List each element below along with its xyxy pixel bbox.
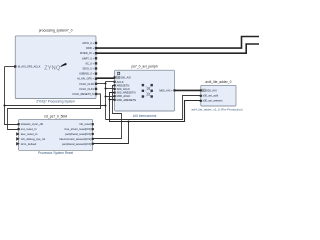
svg-text:ZYNQ: ZYNQ [44, 66, 60, 72]
block axi4_lite_adder_0 [201, 85, 236, 106]
svg-text:S00_ARESETN: S00_ARESETN [117, 91, 136, 95]
svg-text:bus_struct_reset[0:0]: bus_struct_reset[0:0] [65, 127, 91, 131]
wire FCLK_RESET0_N to ext_reset_in [8, 94, 101, 130]
wire peripheral_aresetn [93, 93, 201, 144]
svg-text:peripheral_reset[0:0]: peripheral_reset[0:0] [65, 132, 91, 136]
svg-text:S00_AXI: S00_AXI [206, 88, 217, 92]
ZYNQ logo [44, 63, 66, 72]
svg-text:axi4_lite_adder_v1_0 (Pre-Prod: axi4_lite_adder_v1_0 (Pre-Production) [191, 107, 242, 111]
svg-text:ext_reset_in: ext_reset_in [21, 127, 37, 131]
svg-text:ZYNQ7 Processing System: ZYNQ7 Processing System [36, 99, 75, 103]
svg-text:ACLK: ACLK [117, 80, 124, 84]
title rst_ps7_0_50M [44, 115, 67, 119]
svg-text:s00_axi_aclk: s00_axi_aclk [203, 94, 219, 98]
svg-text:M00_ACLK: M00_ACLK [117, 94, 131, 98]
label Processor System Reset [38, 151, 73, 155]
svg-text:axi4_lite_adder_0: axi4_lite_adder_0 [205, 80, 231, 84]
svg-text:peripheral_aresetn[0:0]: peripheral_aresetn[0:0] [62, 142, 91, 146]
svg-text:IIC_0 +: IIC_0 + [86, 61, 95, 65]
rst right pin labels [59, 122, 91, 146]
svg-text:S00_AXI: S00_AXI [120, 75, 131, 79]
svg-text:USBIND_0 +: USBIND_0 + [79, 72, 94, 76]
wire interconnect_aresetn [93, 86, 122, 139]
label axi4_lite_adder_v1_0 (Pre-Production) [191, 107, 242, 111]
pin M00_AXI [159, 88, 175, 92]
block rst_ps7_0_50M (Processor System Reset) [19, 119, 93, 150]
svg-text:slowest_sync_clk: slowest_sync_clk [21, 122, 44, 126]
title processing_system7_0 [39, 29, 73, 33]
label ZYNQ7 Processing System [36, 99, 75, 103]
svg-text:GPIO_0 +: GPIO_0 + [82, 41, 94, 45]
svg-text:M00_ARESETN: M00_ARESETN [117, 98, 136, 102]
title axi4_lite_adder_0 [205, 80, 231, 84]
wire FIXED_IO external [96, 44, 259, 53]
svg-text:s00_axi_aresetn: s00_axi_aresetn [203, 99, 223, 103]
adder left pin stubs [200, 89, 202, 102]
svg-text:FCLK_CLK1: FCLK_CLK1 [79, 87, 94, 91]
interconnect left pin stubs [114, 76, 116, 101]
svg-text:FIXED_IO +: FIXED_IO + [80, 51, 95, 55]
svg-text:SDIO_0 +: SDIO_0 + [83, 67, 95, 71]
svg-text:Processor System Reset: Processor System Reset [38, 151, 73, 155]
junction dots aresetn net [109, 99, 130, 123]
svg-text:processing_system7_0: processing_system7_0 [39, 29, 73, 33]
expander box [117, 72, 120, 75]
svg-text:rst_ps7_0_50M: rst_ps7_0_50M [44, 115, 67, 119]
svg-text:interconnect_aresetn[0:0]: interconnect_aresetn[0:0] [59, 137, 91, 141]
svg-text:ps7_0_axi_periph: ps7_0_axi_periph [132, 65, 158, 69]
svg-text:aux_reset_in: aux_reset_in [21, 132, 38, 136]
ZYNQ right pin labels [73, 41, 95, 96]
block ps7_0_axi_periph (AXI Interconnect) [115, 70, 175, 111]
svg-text:AXI Interconnect: AXI Interconnect [133, 114, 157, 118]
rst right pin stubs [92, 123, 94, 145]
junction dots clock net [4, 83, 107, 107]
title ps7_0_axi_periph [132, 65, 158, 69]
wire FCLK_CLK0 clock net [5, 67, 201, 125]
svg-text:dcm_locked: dcm_locked [21, 142, 37, 146]
rst left pins [16, 123, 20, 146]
svg-text:M_AXI_GP0_ACLK: M_AXI_GP0_ACLK [18, 65, 41, 69]
wire DDR external [96, 37, 259, 49]
wire M_AXI_GP0 to S00_AXI [96, 77, 115, 79]
svg-text:mb_debug_sys_rst: mb_debug_sys_rst [21, 137, 46, 141]
svg-text:DDR +: DDR + [86, 46, 94, 50]
svg-text:M00_AXI +: M00_AXI + [159, 88, 173, 92]
svg-text:UART_0 +: UART_0 + [82, 56, 95, 60]
svg-text:mb_reset: mb_reset [79, 122, 91, 126]
block processing_system7_0 (ZYNQ7 Processing System) [15, 36, 96, 99]
ZYNQ right pin stubs [95, 42, 97, 95]
adder pin labels [203, 88, 223, 102]
interconnect crossbar icon [142, 84, 153, 98]
svg-text:FCLK_RESET0_N: FCLK_RESET0_N [73, 92, 95, 96]
label AXI Interconnect [133, 114, 157, 118]
svg-text:ARESETN: ARESETN [117, 83, 130, 87]
svg-text:M_AXI_GP0 +: M_AXI_GP0 + [77, 77, 94, 81]
pin M_AXI_GP0_ACLK [14, 65, 41, 69]
rst left pin labels [21, 122, 46, 146]
interconnect pin labels [117, 75, 136, 102]
svg-text:FCLK_CLK0: FCLK_CLK0 [79, 82, 94, 86]
wire M00_AXI to adder S00_AXI [175, 89, 201, 91]
svg-text:S00_ACLK: S00_ACLK [117, 87, 131, 91]
